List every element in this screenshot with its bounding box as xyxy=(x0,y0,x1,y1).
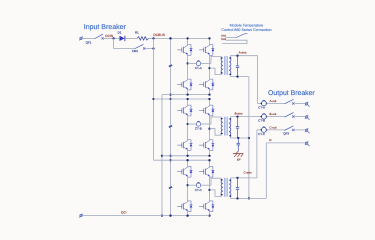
junction cap column top xyxy=(169,37,171,39)
label CT-B bridge xyxy=(195,127,202,131)
wire left column bridge2 xyxy=(187,99,189,156)
transistor Q10 IGBT top-right b3 xyxy=(199,166,214,178)
label KM1 xyxy=(132,49,139,53)
wire input to QF1 xyxy=(82,37,94,39)
wire bridge3 top rail xyxy=(154,159,210,161)
junction left col mid b1 xyxy=(186,62,188,64)
junction right col mid b1 xyxy=(208,67,210,69)
junction bottom rail right col b3 xyxy=(208,214,210,216)
transistor Q7 IGBT bottom-left b2 xyxy=(177,139,192,151)
wire CT-A to breaker xyxy=(266,102,284,104)
label CT-C output xyxy=(258,132,266,136)
wire jog up to primary top b3 xyxy=(211,178,220,185)
net label DCIN xyxy=(105,34,113,38)
wire B secondary bottom xyxy=(232,137,249,139)
breaker pole A xyxy=(285,99,295,104)
net label B-out xyxy=(269,112,276,116)
junction bottom rail left col b1 xyxy=(186,93,188,95)
current sensor CT-C bridge xyxy=(196,182,200,187)
wire QF1 to DCIN xyxy=(104,37,120,39)
transistor Q1 IGBT top-left b1 xyxy=(177,44,192,56)
junction bottom rail left col b3 xyxy=(186,214,188,216)
junction A cap top xyxy=(236,55,238,57)
wire bridge1 bottom rail xyxy=(162,94,210,96)
ground EP protective earth xyxy=(233,151,244,161)
svg-text:OH1: OH1 xyxy=(221,34,227,37)
terminal DC- input xyxy=(79,214,82,218)
terminal N xyxy=(305,141,310,146)
svg-text:CT-B: CT-B xyxy=(258,119,265,123)
svg-text:D1: D1 xyxy=(118,30,122,34)
wire bypass right xyxy=(145,48,153,50)
transformer T2 xyxy=(220,117,232,138)
svg-text:B-arm: B-arm xyxy=(235,112,243,116)
wire left column bridge1 xyxy=(187,38,189,94)
capacitor C-C filter xyxy=(236,178,239,199)
wire jog up to primary top b1 xyxy=(211,56,220,63)
wire CT to jog b1 xyxy=(201,62,211,64)
label CT-C bridge xyxy=(195,188,203,192)
resistor R1 xyxy=(137,37,149,40)
svg-text:A-arm: A-arm xyxy=(239,51,247,55)
wire B secondary top to CT-B xyxy=(232,116,262,118)
breaker pole B xyxy=(285,113,295,118)
wire bypass left xyxy=(114,48,135,50)
contactor KM1 blade xyxy=(135,44,146,49)
current sensor CT-B bridge xyxy=(196,121,200,126)
net label DCBUS xyxy=(153,33,165,37)
svg-text:Control 880 Series Connection: Control 880 Series Connection xyxy=(221,28,271,32)
svg-text:C-arm: C-arm xyxy=(243,171,252,175)
transistor Q5 IGBT top-left b2 xyxy=(177,104,192,116)
svg-text:KM1: KM1 xyxy=(132,49,139,53)
junction top rail right col b3 xyxy=(208,159,210,161)
label R1 xyxy=(135,31,139,35)
junction left col mid b3 xyxy=(186,184,188,186)
label D1 xyxy=(118,30,122,34)
svg-text:DC-: DC- xyxy=(121,211,127,215)
transformer T3 xyxy=(220,178,232,199)
svg-text:CT-A: CT-A xyxy=(195,66,202,70)
transformer T1 xyxy=(220,56,232,77)
junction DCBUS xyxy=(152,37,154,39)
junction cap C3 top xyxy=(169,159,171,161)
transistor Q4 IGBT bottom-right b1 xyxy=(199,78,214,90)
diode D1 xyxy=(120,36,125,41)
capacitor C1 DC-link xyxy=(168,64,172,67)
net label OH1 xyxy=(221,34,227,37)
wire CT to jog b3 xyxy=(201,184,211,186)
wire breaker A to terminal xyxy=(295,102,306,104)
junction left col mid b2 xyxy=(186,123,188,125)
wire OH2 loop xyxy=(222,40,247,43)
junction top rail left col b3 xyxy=(186,159,188,161)
breaker pole C xyxy=(285,126,295,131)
wire left column bridge3 xyxy=(187,160,189,215)
svg-text:OH2: OH2 xyxy=(221,38,227,41)
wire breaker C to terminal xyxy=(295,129,306,131)
title Output Breaker xyxy=(268,90,315,97)
svg-text:DCBUS: DCBUS xyxy=(153,33,165,37)
current transformer CT-C output xyxy=(261,127,268,133)
junction DCIN xyxy=(112,37,114,39)
wire C rise to row C xyxy=(257,130,262,178)
title Input Breaker xyxy=(84,23,127,31)
capacitor C-EP to earth xyxy=(237,138,241,151)
svg-text:QF1: QF1 xyxy=(86,41,92,45)
junction bottom rail left col b2 xyxy=(186,155,188,157)
label QF1 xyxy=(86,41,92,45)
svg-text:Module Temperature: Module Temperature xyxy=(230,24,264,28)
junction A cap bottom xyxy=(236,75,238,77)
wire D1 to R1 xyxy=(125,37,137,39)
wire bridge2 top rail xyxy=(154,98,210,100)
junction C cap top xyxy=(236,177,238,179)
junction bottom rail right col b2 xyxy=(208,155,210,157)
svg-text:B-out: B-out xyxy=(269,112,276,116)
junction DC+ bridge2 top xyxy=(152,98,154,100)
wire DC+ bus vertical xyxy=(153,38,155,160)
wire mid to CT b3 xyxy=(188,184,197,186)
note Module Temperature Control 880 Series Connection xyxy=(221,24,271,32)
wire OH1 xyxy=(226,37,236,39)
label CT-A bridge xyxy=(195,66,202,70)
wire DC- bus vertical xyxy=(161,95,163,216)
junction neutral at C bottom xyxy=(248,197,250,199)
wire mid to CT b2 xyxy=(188,123,197,125)
junction DC- bottom rail xyxy=(161,214,163,216)
junction right col mid b2 xyxy=(208,128,210,130)
wire right column bridge3 xyxy=(209,160,211,215)
net label C-out xyxy=(269,125,276,129)
wire jog up to primary top b2 xyxy=(211,117,220,124)
junction bottom rail right col b1 xyxy=(208,93,210,95)
junction top rail left col b1 xyxy=(186,37,188,39)
net label OH2 xyxy=(221,38,227,41)
svg-text:N: N xyxy=(269,138,271,142)
capacitor C2 DC-link xyxy=(168,125,172,128)
junction right col mid b3 xyxy=(208,189,210,191)
wire neutral bus vertical xyxy=(248,77,250,199)
svg-text:CT-B: CT-B xyxy=(195,127,202,131)
transistor Q6 IGBT top-right b2 xyxy=(199,104,214,116)
svg-text:A-out: A-out xyxy=(269,99,276,103)
wire mid to CT b1 xyxy=(188,62,197,64)
wire breaker B to terminal xyxy=(295,116,306,118)
current transformer CT-B output xyxy=(261,113,268,119)
wire neutral up to N row xyxy=(265,143,267,199)
svg-text:CT-C: CT-C xyxy=(195,188,203,192)
wire right col to primary bottom b1 xyxy=(210,68,220,75)
svg-text:EP: EP xyxy=(237,157,241,161)
transistor Q12 IGBT bottom-right b3 xyxy=(199,200,214,212)
wire right column bridge1 xyxy=(209,38,211,94)
current sensor CT-A bridge xyxy=(196,61,200,66)
transistor Q8 IGBT bottom-right b2 xyxy=(199,139,214,151)
svg-text:Output Breaker: Output Breaker xyxy=(268,90,315,97)
svg-text:C-out: C-out xyxy=(269,125,276,129)
junction neutral at B bottom xyxy=(248,137,250,139)
capacitor C3 DC-link xyxy=(168,186,172,189)
wire right column bridge2 xyxy=(209,99,211,156)
wire A secondary top xyxy=(232,55,258,57)
wire CT to jog b2 xyxy=(201,123,211,125)
junction top rail right col b2 xyxy=(208,98,210,100)
transistor Q9 IGBT top-left b3 xyxy=(177,166,192,178)
label QF3 xyxy=(283,132,289,136)
junction DC- left col xyxy=(186,214,188,216)
wire bridge1 top rail xyxy=(188,37,210,39)
wire CT-C to breaker xyxy=(266,129,284,131)
junction cap C2 top xyxy=(169,98,171,100)
svg-text:DCIN: DCIN xyxy=(105,34,113,38)
transistor Q3 IGBT bottom-left b1 xyxy=(177,78,192,90)
junction cap C2 bottom xyxy=(169,155,171,157)
junction DC- bridge2 bottom xyxy=(161,155,163,157)
wire DC-link cap column xyxy=(170,38,172,215)
wire A drop to row A xyxy=(258,56,262,104)
wire R1 to DCBUS rail xyxy=(149,37,188,39)
wire C secondary top xyxy=(232,177,257,179)
capacitor C-A filter xyxy=(236,56,239,77)
current transformer CT-A output xyxy=(261,100,268,106)
wire N row xyxy=(266,142,305,144)
svg-text:R1: R1 xyxy=(135,31,139,35)
wire right col to primary bottom b2 xyxy=(210,129,220,136)
net label C-arm xyxy=(243,171,252,175)
terminal DC+ input xyxy=(79,36,82,40)
capacitor C-B filter xyxy=(236,117,239,138)
junction B EP branch xyxy=(237,137,239,139)
terminal A-out xyxy=(305,102,310,107)
junction B cap top xyxy=(236,115,238,117)
breaker QF1 xyxy=(95,34,104,39)
junction top rail left col b2 xyxy=(186,98,188,100)
junction top rail right col b1 xyxy=(208,37,210,39)
label CT-A output xyxy=(258,106,265,110)
wire A secondary bottom xyxy=(232,76,249,78)
wire right col to primary bottom b3 xyxy=(210,190,220,197)
junction DC- cap column xyxy=(169,214,171,216)
net label B-arm xyxy=(235,112,243,116)
thermal switch OH blade xyxy=(236,34,247,38)
junction bypass DCBUS xyxy=(152,47,154,49)
net label N xyxy=(269,138,271,142)
terminal C-out xyxy=(305,128,310,133)
junction cap C3 bottom xyxy=(169,214,171,216)
svg-text:QF3: QF3 xyxy=(283,132,289,136)
label CT-B output xyxy=(258,119,265,123)
junction C cap bottom xyxy=(236,197,238,199)
wire bypass down xyxy=(113,38,115,48)
terminal B-out xyxy=(305,115,310,120)
svg-text:CT-A: CT-A xyxy=(258,106,265,110)
transistor Q11 IGBT bottom-left b3 xyxy=(177,200,192,212)
junction cap C1 top xyxy=(169,37,171,39)
net label A-arm xyxy=(239,51,247,55)
wire DC- bottom xyxy=(82,215,209,217)
net label A-out xyxy=(269,99,276,103)
wire C secondary bottom xyxy=(232,197,267,199)
net label DC- xyxy=(121,211,127,215)
svg-text:CT-C: CT-C xyxy=(258,132,266,136)
wire CT-B to breaker xyxy=(266,116,284,118)
transistor Q2 IGBT top-right b1 xyxy=(199,44,214,56)
wire bridge2 bottom rail xyxy=(162,155,210,157)
junction cap C1 bottom xyxy=(169,93,171,95)
